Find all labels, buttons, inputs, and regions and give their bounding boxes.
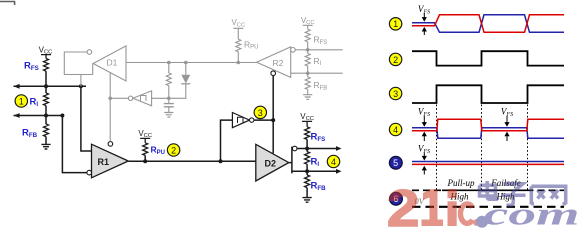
watermark digit 2 bbox=[387, 179, 419, 237]
svg-text:D1: D1 bbox=[107, 58, 118, 68]
junction bus B / chain bbox=[44, 114, 48, 118]
waveform row3 black bbox=[412, 85, 564, 103]
waveform row1 blue bbox=[412, 15, 564, 33]
node 5 waveform circle bbox=[389, 156, 402, 169]
wire bus B down to R1 inverting input bbox=[62, 116, 87, 173]
wire RI to junction B bbox=[45, 106, 47, 116]
svg-text:4: 4 bbox=[331, 157, 336, 167]
junction bus A to R1 input branch bbox=[79, 84, 83, 88]
watermark hanzi dian bbox=[480, 181, 499, 199]
arrow VFS row4 mid up bbox=[506, 136, 508, 141]
node 1 waveform circle bbox=[389, 18, 401, 30]
node B bus terminal (left arrow) bbox=[14, 113, 20, 118]
ground capacitor bbox=[164, 113, 173, 118]
svg-text:RFS: RFS bbox=[24, 60, 39, 72]
D2 inverted output bubble bbox=[292, 146, 297, 151]
driver D2 bbox=[256, 144, 289, 181]
ground gray chain bbox=[303, 95, 312, 100]
junction bus B corner bbox=[60, 114, 64, 118]
waveform row1 red bbox=[412, 15, 564, 33]
op-amp R1 (receiver) bbox=[92, 144, 129, 178]
waveform row6 high line solid bbox=[442, 189, 527, 191]
node 2 circle bbox=[167, 144, 179, 156]
svg-text:RPU: RPU bbox=[151, 145, 165, 156]
capacitor C1 bbox=[164, 98, 174, 112]
waveform row2 black bbox=[412, 51, 564, 65]
wire bus A down to R1 input bbox=[81, 86, 92, 151]
svg-text:RI: RI bbox=[30, 96, 39, 108]
wire R2 bottom input bbox=[291, 72, 308, 74]
svg-text:RI: RI bbox=[314, 56, 322, 67]
junction enable node 3 bbox=[271, 118, 275, 122]
wire R1 output main line bbox=[128, 160, 256, 162]
svg-text:2: 2 bbox=[387, 179, 419, 229]
resistor RPU blue label bbox=[143, 143, 148, 156]
wire RFS to junction bbox=[45, 71, 47, 86]
svg-text:RFB: RFB bbox=[22, 127, 38, 139]
watermark letter i bbox=[448, 189, 457, 226]
resistor RI gray bbox=[307, 50, 309, 54]
Vcc gray right chain bbox=[301, 16, 315, 29]
svg-text:3: 3 bbox=[258, 108, 263, 118]
wire D1 tap to bus A bbox=[80, 75, 82, 87]
junction RPU / main line bbox=[143, 159, 147, 163]
Vcc RPU pullup bbox=[138, 129, 152, 143]
svg-text:VCC: VCC bbox=[300, 112, 314, 122]
Vcc left supply bbox=[39, 45, 53, 58]
dotted timing line t2 bbox=[481, 105, 483, 191]
arrow VFS row5 down bbox=[423, 153, 425, 158]
watermark hanzi zi bbox=[502, 184, 526, 206]
junction right chain top bbox=[305, 147, 309, 151]
wire U1 out to enable line bbox=[110, 97, 128, 99]
D1 enable bubble bbox=[87, 50, 92, 55]
watermark digit 1 bbox=[422, 189, 444, 226]
Vcc RPU gray bbox=[231, 18, 245, 39]
svg-text:RFB: RFB bbox=[314, 80, 328, 91]
waveform row6 0V dashed line bbox=[412, 206, 564, 208]
svg-text:2: 2 bbox=[393, 55, 398, 65]
node 6 waveform circle bbox=[390, 192, 403, 205]
svg-text:VCC: VCC bbox=[231, 18, 245, 28]
watermark hanzi wang bbox=[531, 186, 565, 204]
R1 inverting input bubble bbox=[87, 170, 92, 175]
op-amp R2 (gray, points left) bbox=[257, 47, 291, 78]
inverter U2 (black, points right) bbox=[232, 113, 249, 128]
svg-text:RFS: RFS bbox=[311, 131, 326, 143]
svg-text:4: 4 bbox=[393, 125, 398, 135]
arrow VFS row1 down bbox=[423, 13, 425, 18]
junction RC node bbox=[167, 97, 171, 101]
node 4 waveform circle bbox=[389, 123, 401, 135]
node 1 circle bbox=[15, 95, 27, 107]
svg-text:VCC: VCC bbox=[301, 16, 315, 26]
resistor RFB gray bbox=[307, 73, 309, 77]
wire arrow out bottom bbox=[307, 170, 336, 172]
R2 input bubble bbox=[291, 48, 296, 53]
watermark letter c bbox=[460, 204, 472, 223]
Vcc right chain bbox=[300, 112, 314, 127]
junction main line / U2 branch bbox=[219, 159, 223, 163]
wire bus B horizontal bbox=[14, 115, 63, 117]
ground left chain bbox=[41, 144, 50, 149]
junction RPU gray bbox=[237, 61, 241, 65]
resistor filter bbox=[168, 63, 170, 74]
svg-text:R2: R2 bbox=[273, 58, 284, 68]
wire D1 output horizontal bbox=[126, 62, 257, 64]
inverter U2 output bubble bbox=[250, 118, 254, 122]
resistor RI left bbox=[45, 86, 47, 93]
svg-text:RPU: RPU bbox=[244, 39, 258, 50]
node A bus terminal (left arrow) bbox=[14, 84, 20, 89]
arrow VFS row4 left down bbox=[423, 116, 425, 123]
wire R2 top input bbox=[295, 49, 308, 51]
node 2 waveform circle bbox=[389, 53, 401, 65]
svg-text:3: 3 bbox=[393, 89, 398, 99]
wire R1/D1 enable vertical bbox=[109, 73, 111, 142]
dotted timing line t3 bbox=[527, 105, 529, 191]
svg-text:5: 5 bbox=[393, 158, 398, 168]
arrow VFS row5 up bbox=[423, 170, 425, 175]
svg-text:Pull-up: Pull-up bbox=[447, 178, 475, 188]
node 4 circle bbox=[327, 155, 339, 167]
resistor RI right bbox=[306, 149, 308, 152]
svg-text:RI: RI bbox=[311, 157, 320, 169]
wire gray stub bottom bbox=[308, 72, 343, 74]
resistor RPU gray bbox=[236, 39, 241, 52]
wire top-left cropped stub bbox=[0, 2, 15, 6]
wire D2 output structure bbox=[289, 147, 307, 174]
arrow VFS row4 left up bbox=[423, 136, 425, 141]
dotted timing line t1 bbox=[436, 105, 438, 191]
svg-text:R1: R1 bbox=[98, 157, 110, 167]
wire R2/D2 enable vertical bbox=[272, 76, 274, 154]
junction gray chain top bbox=[306, 48, 310, 52]
inverter U1 (gray, points left) bbox=[133, 91, 152, 106]
svg-text:1: 1 bbox=[393, 19, 398, 29]
waveform row6 high line dashed left bbox=[412, 189, 442, 191]
R2 enable bubble bbox=[271, 71, 276, 76]
junction bus A / chain bbox=[44, 84, 48, 88]
waveform row5 red bbox=[412, 163, 564, 165]
waveform row6 high line dashed right bbox=[527, 189, 565, 191]
watermark 21ic period bbox=[473, 219, 480, 226]
R1 enable bubble bbox=[108, 142, 113, 147]
wire arrow out top bbox=[307, 148, 336, 150]
resistor RFB left bbox=[45, 116, 47, 125]
resistor RFS right bbox=[305, 127, 310, 140]
svg-text:1: 1 bbox=[19, 96, 24, 106]
node 3 circle bbox=[254, 106, 266, 118]
svg-text:VCC: VCC bbox=[138, 129, 152, 139]
wire gray stub top bbox=[308, 49, 343, 51]
waveform row4 blue bbox=[412, 128, 564, 139]
buffer D1 bbox=[93, 46, 126, 81]
wire U2 input bbox=[221, 120, 233, 161]
inverter U1 output bubble bbox=[128, 96, 132, 100]
wire D1 enable path bbox=[64, 52, 92, 75]
node 3 waveform circle bbox=[389, 87, 401, 99]
waveform row5 blue bbox=[412, 161, 564, 163]
arrow VFS row1 up bbox=[423, 30, 425, 35]
svg-text:2: 2 bbox=[171, 145, 176, 155]
junction gray chain bottom bbox=[306, 71, 310, 75]
diode D3 bbox=[152, 63, 191, 99]
watermark com period bbox=[476, 216, 488, 228]
resistor RFS gray bbox=[305, 29, 310, 42]
waveform row4 red bbox=[412, 119, 564, 130]
junction diode bbox=[184, 61, 188, 65]
wire bus A horizontal bbox=[14, 85, 87, 87]
svg-text:RFB: RFB bbox=[311, 180, 327, 192]
arrow VFS row4 mid down bbox=[506, 116, 508, 123]
ground right chain bbox=[303, 198, 312, 203]
junction filter resistor bbox=[167, 61, 171, 65]
wire U2 output to node 3 bbox=[254, 119, 273, 121]
junction enable line bbox=[108, 97, 112, 101]
svg-text:D2: D2 bbox=[265, 158, 277, 168]
wire RFB to ground bbox=[45, 137, 47, 145]
resistor RFS left bbox=[44, 59, 49, 72]
resistor RFB right bbox=[306, 171, 308, 175]
junction right chain bottom bbox=[305, 169, 309, 173]
svg-text:RFS: RFS bbox=[314, 35, 328, 46]
